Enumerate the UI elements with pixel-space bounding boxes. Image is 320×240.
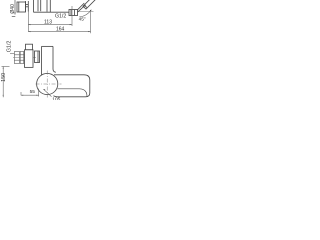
- dimension arrowheads: [3, 10, 92, 98]
- svg-text:G1/2: G1/2: [55, 14, 66, 20]
- svg-text:105: 105: [52, 97, 60, 100]
- union block B: [20, 52, 24, 64]
- 164 dimension: [28, 31, 90, 33]
- knob: [83, 0, 96, 9]
- spout (top view): [17, 2, 26, 12]
- extension line left: [27, 12, 29, 32]
- spout outline: [54, 75, 90, 97]
- vertical centreline: [46, 71, 48, 98]
- valve box: [69, 10, 78, 16]
- 45 deg arc: [79, 10, 91, 17]
- centreline right: [78, 11, 94, 13]
- spout base ring: [26, 1, 29, 12]
- 150 dimension: [2, 67, 10, 98]
- 164 right extension: [90, 12, 92, 34]
- spout inner line: [58, 89, 88, 97]
- body front: [25, 50, 34, 68]
- outlet leader: [44, 89, 52, 96]
- svg-text:164: 164: [56, 26, 65, 32]
- svg-text:113: 113: [44, 20, 52, 26]
- horizontal centreline: [36, 83, 62, 85]
- union block A: [14, 52, 19, 64]
- cap: [35, 51, 40, 63]
- svg-text:150: 150: [1, 73, 7, 82]
- dia dimension line: [12, 0, 16, 17]
- G1/2 leader tick: [10, 53, 15, 55]
- bonnet: [26, 44, 33, 50]
- lever lines: [78, 3, 86, 12]
- svg-text:G1/2: G1/2: [6, 41, 12, 53]
- valve centre extension: [71, 6, 73, 26]
- svg-text:45°: 45°: [79, 17, 86, 23]
- 55 dimension: [21, 89, 39, 97]
- down pipe: [42, 46, 56, 75]
- body centreline: [13, 57, 36, 59]
- svg-text:55: 55: [30, 89, 36, 95]
- 113 dimension: [28, 24, 72, 26]
- escutcheon circle: [37, 73, 58, 94]
- body (top view): [34, 0, 70, 12]
